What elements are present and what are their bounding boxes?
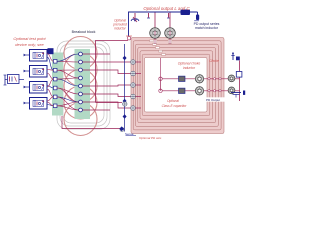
wire	[96, 102, 123, 104]
prerouted inductor symbol	[131, 17, 139, 22]
wire harness pads to vias	[57, 54, 79, 110]
output capacitor C4	[231, 91, 245, 98]
wire through T1	[154, 29, 156, 37]
svg-text:device only, see: device only, see	[15, 42, 44, 47]
band crossing vias	[208, 78, 210, 80]
ground junction	[120, 128, 124, 132]
filter block FB1	[179, 76, 186, 81]
svg-text:inductor: inductor	[114, 27, 126, 31]
via junction P4	[131, 94, 136, 99]
junction stubs	[135, 62, 141, 108]
wire	[24, 102, 30, 104]
return bus wire	[96, 41, 129, 103]
filter row 2 wire	[161, 90, 240, 92]
magnetics module B3	[30, 82, 48, 94]
wire	[169, 13, 171, 45]
via junction P3	[131, 83, 136, 88]
label: PD output	[206, 97, 225, 101]
sense bus wire	[124, 44, 126, 132]
wire	[24, 86, 30, 88]
via junction P1	[131, 60, 136, 65]
capacitor C2	[147, 13, 150, 18]
junction dot	[159, 89, 162, 92]
output port symbol	[231, 52, 240, 60]
pad strip J3 (right)	[75, 49, 91, 119]
inductor L2	[181, 10, 191, 16]
test point device	[4, 75, 25, 86]
drop crossing boxes	[153, 40, 156, 44]
wire	[24, 54, 30, 56]
input arrow	[24, 54, 26, 57]
wire	[154, 13, 156, 45]
bus tap diamonds	[123, 56, 127, 119]
svg-text:inductor: inductor	[183, 66, 196, 70]
toroid T3	[195, 75, 203, 83]
wire through holes	[154, 31, 156, 35]
feed wires to choke	[83, 54, 131, 110]
connector pad	[48, 48, 54, 54]
magnetics module B1	[30, 50, 48, 62]
filter block FB2	[179, 88, 186, 93]
wire	[24, 70, 30, 72]
input arrow	[24, 102, 26, 105]
capacitor link wire	[160, 79, 162, 91]
svg-text:Sense: Sense	[125, 132, 134, 136]
svg-text:PD Output: PD Output	[206, 98, 220, 102]
magnetics module B2	[30, 66, 48, 78]
svg-text:match inductor: match inductor	[195, 26, 219, 30]
magnetics module B4	[30, 98, 48, 110]
wire redraw drops	[154, 39, 156, 44]
output branch wire	[239, 61, 241, 102]
wire	[62, 116, 122, 129]
svg-text:Optional: Optional	[167, 99, 179, 103]
junction dot	[159, 77, 162, 80]
svg-text:Optional output L and C: Optional output L and C	[143, 6, 190, 11]
series block U2	[236, 72, 242, 78]
via junction P6	[123, 102, 127, 106]
svg-text:Choke: Choke	[209, 59, 219, 63]
wire harness boxes to pads	[47, 54, 53, 106]
toroid T1	[150, 28, 161, 39]
toroid T2	[165, 28, 176, 39]
bus arrow diamond	[119, 126, 124, 131]
capacitor C1	[134, 13, 137, 19]
via junction P2	[131, 71, 136, 76]
pad strip J2 (left)	[52, 53, 63, 116]
input arrow	[24, 70, 26, 73]
svg-text:Optional test point: Optional test point	[13, 36, 46, 41]
input arrow	[24, 86, 26, 89]
svg-text:Class E capacitor: Class E capacitor	[162, 104, 188, 108]
toroid T6	[228, 87, 235, 94]
spiral input connector	[127, 37, 130, 40]
capacitor C3	[167, 13, 170, 18]
breakout block enclosure	[57, 41, 110, 129]
svg-text:Breakout block: Breakout block	[72, 30, 96, 34]
toroid T5	[228, 75, 235, 82]
riser wire to choke top	[160, 58, 162, 79]
choke inductor L1 (spiral)	[131, 38, 224, 134]
filter row 1 wire	[161, 78, 240, 80]
cable bundle rings	[64, 37, 97, 136]
svg-text:Optional PD size: Optional PD size	[139, 136, 162, 140]
match inductor L3	[194, 12, 199, 21]
via junction P5	[131, 106, 136, 111]
toroid T4	[195, 87, 203, 95]
output rail wire	[129, 12, 198, 36]
